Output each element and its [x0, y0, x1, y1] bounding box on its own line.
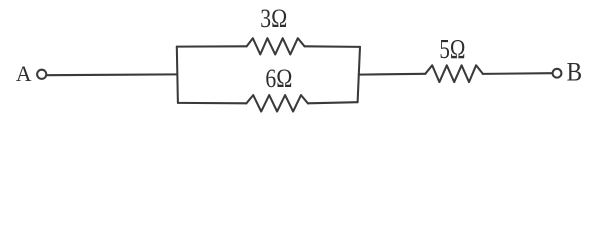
wire bottom rail right: [308, 102, 358, 103]
svg-text:A: A: [16, 61, 32, 86]
svg-text:6Ω: 6Ω: [265, 63, 292, 93]
resistor R3 5ohm: [425, 65, 483, 82]
wire A to parallel block: [47, 73, 177, 76]
wire bottom rail left: [178, 102, 247, 104]
wire right vertical of parallel block: [358, 47, 360, 102]
terminal B: [553, 69, 562, 78]
wire top rail left: [177, 45, 247, 47]
terminal A: [37, 70, 46, 79]
svg-text:5Ω: 5Ω: [439, 34, 465, 64]
resistor R1 3ohm: [247, 38, 305, 54]
svg-text:B: B: [567, 58, 583, 87]
wire R3 to terminal B: [483, 72, 552, 75]
resistor R2 6ohm: [246, 95, 308, 111]
wire block to R3: [359, 73, 426, 76]
wire top rail right: [305, 45, 361, 48]
svg-text:3Ω: 3Ω: [260, 3, 287, 33]
wire left vertical of parallel block: [177, 47, 178, 103]
